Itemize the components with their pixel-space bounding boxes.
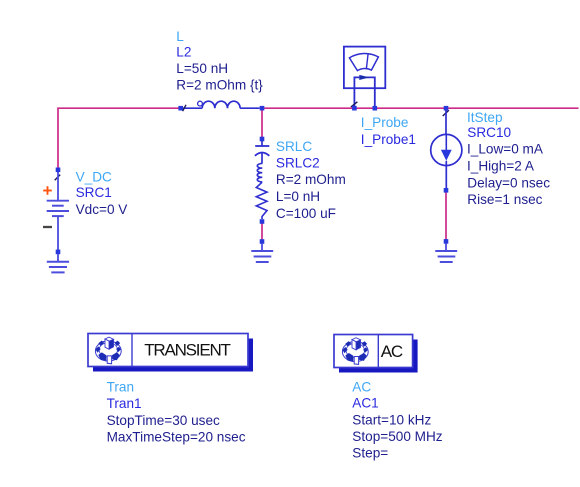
svg-text:StopTime=30 usec: StopTime=30 usec [107,413,220,428]
svg-text:Vdc=0 V: Vdc=0 V [76,202,128,217]
wire: SRLC2 pin 2 down to ground [261,222,263,242]
svg-text:Tran1: Tran1 [107,396,142,411]
minus sign of SRC1 [43,226,52,228]
svg-text:L=50 nH: L=50 nH [176,61,228,76]
svg-text:Tran: Tran [107,380,134,395]
label SRC1 [76,169,128,217]
label AC1 [352,379,443,460]
wire: top net from node A to right edge [262,107,579,109]
svg-text:Step=: Step= [352,446,388,461]
wire: SRC10 pin 2 down to ground [445,190,447,241]
svg-text:TRANSIENT: TRANSIENT [144,340,230,359]
svg-text:SRC10: SRC10 [467,125,511,140]
svg-text:R=2 mOhm {t}: R=2 mOhm {t} [176,78,263,93]
ground of SRLC2 [251,239,273,262]
voltage source SRC1 (V_DC) [47,168,69,255]
svg-text:I_Probe: I_Probe [361,115,409,130]
svg-text:SRLC2: SRLC2 [276,155,320,170]
svg-text:C=100 uF: C=100 uF [276,206,336,221]
svg-text:ItStep: ItStep [467,110,503,125]
svg-text:Stop=500 MHz: Stop=500 MHz [352,429,443,444]
simulation block TRANSIENT [88,334,253,372]
ground of SRC1 [47,254,69,272]
svg-text:MaxTimeStep=20 nsec: MaxTimeStep=20 nsec [107,429,246,444]
svg-text:I_Probe1: I_Probe1 [361,132,416,147]
svg-text:L=0 nH: L=0 nH [276,189,320,204]
label SRC10 [467,110,550,207]
svg-text:Delay=0 nsec: Delay=0 nsec [467,176,550,191]
ground of SRC10 [435,239,457,262]
svg-text:V_DC: V_DC [76,169,112,184]
simulation block AC [334,335,418,373]
step current source SRC10 (ItStep) [431,106,462,193]
svg-text:AC: AC [352,379,371,394]
label Tran1 [107,380,246,445]
svg-text:SRLC: SRLC [276,139,312,154]
svg-text:Start=10 kHz: Start=10 kHz [352,412,431,427]
svg-text:SRC1: SRC1 [76,185,112,200]
wire: node A down to SRLC2 pin 1 [261,108,263,139]
svg-text:L2: L2 [176,44,191,59]
plus sign of SRC1 [43,186,52,195]
label I_Probe1 [361,115,416,147]
svg-text:Rise=1 nsec: Rise=1 nsec [467,192,542,207]
label SRLC2 [276,139,346,221]
svg-text:I_Low=0 mA: I_Low=0 mA [467,141,544,156]
svg-text:AC: AC [381,342,403,361]
current probe I_Probe1 [344,47,385,111]
series RLC SRLC2 [255,137,269,224]
inductor L2 [178,101,264,111]
svg-text:I_High=2 A: I_High=2 A [467,158,535,173]
svg-text:L: L [176,29,184,44]
wire: source corner net (V_DC up and across) [58,108,181,170]
label L2 [176,29,263,92]
svg-text:R=2 mOhm: R=2 mOhm [276,172,346,187]
svg-text:AC1: AC1 [352,396,378,411]
